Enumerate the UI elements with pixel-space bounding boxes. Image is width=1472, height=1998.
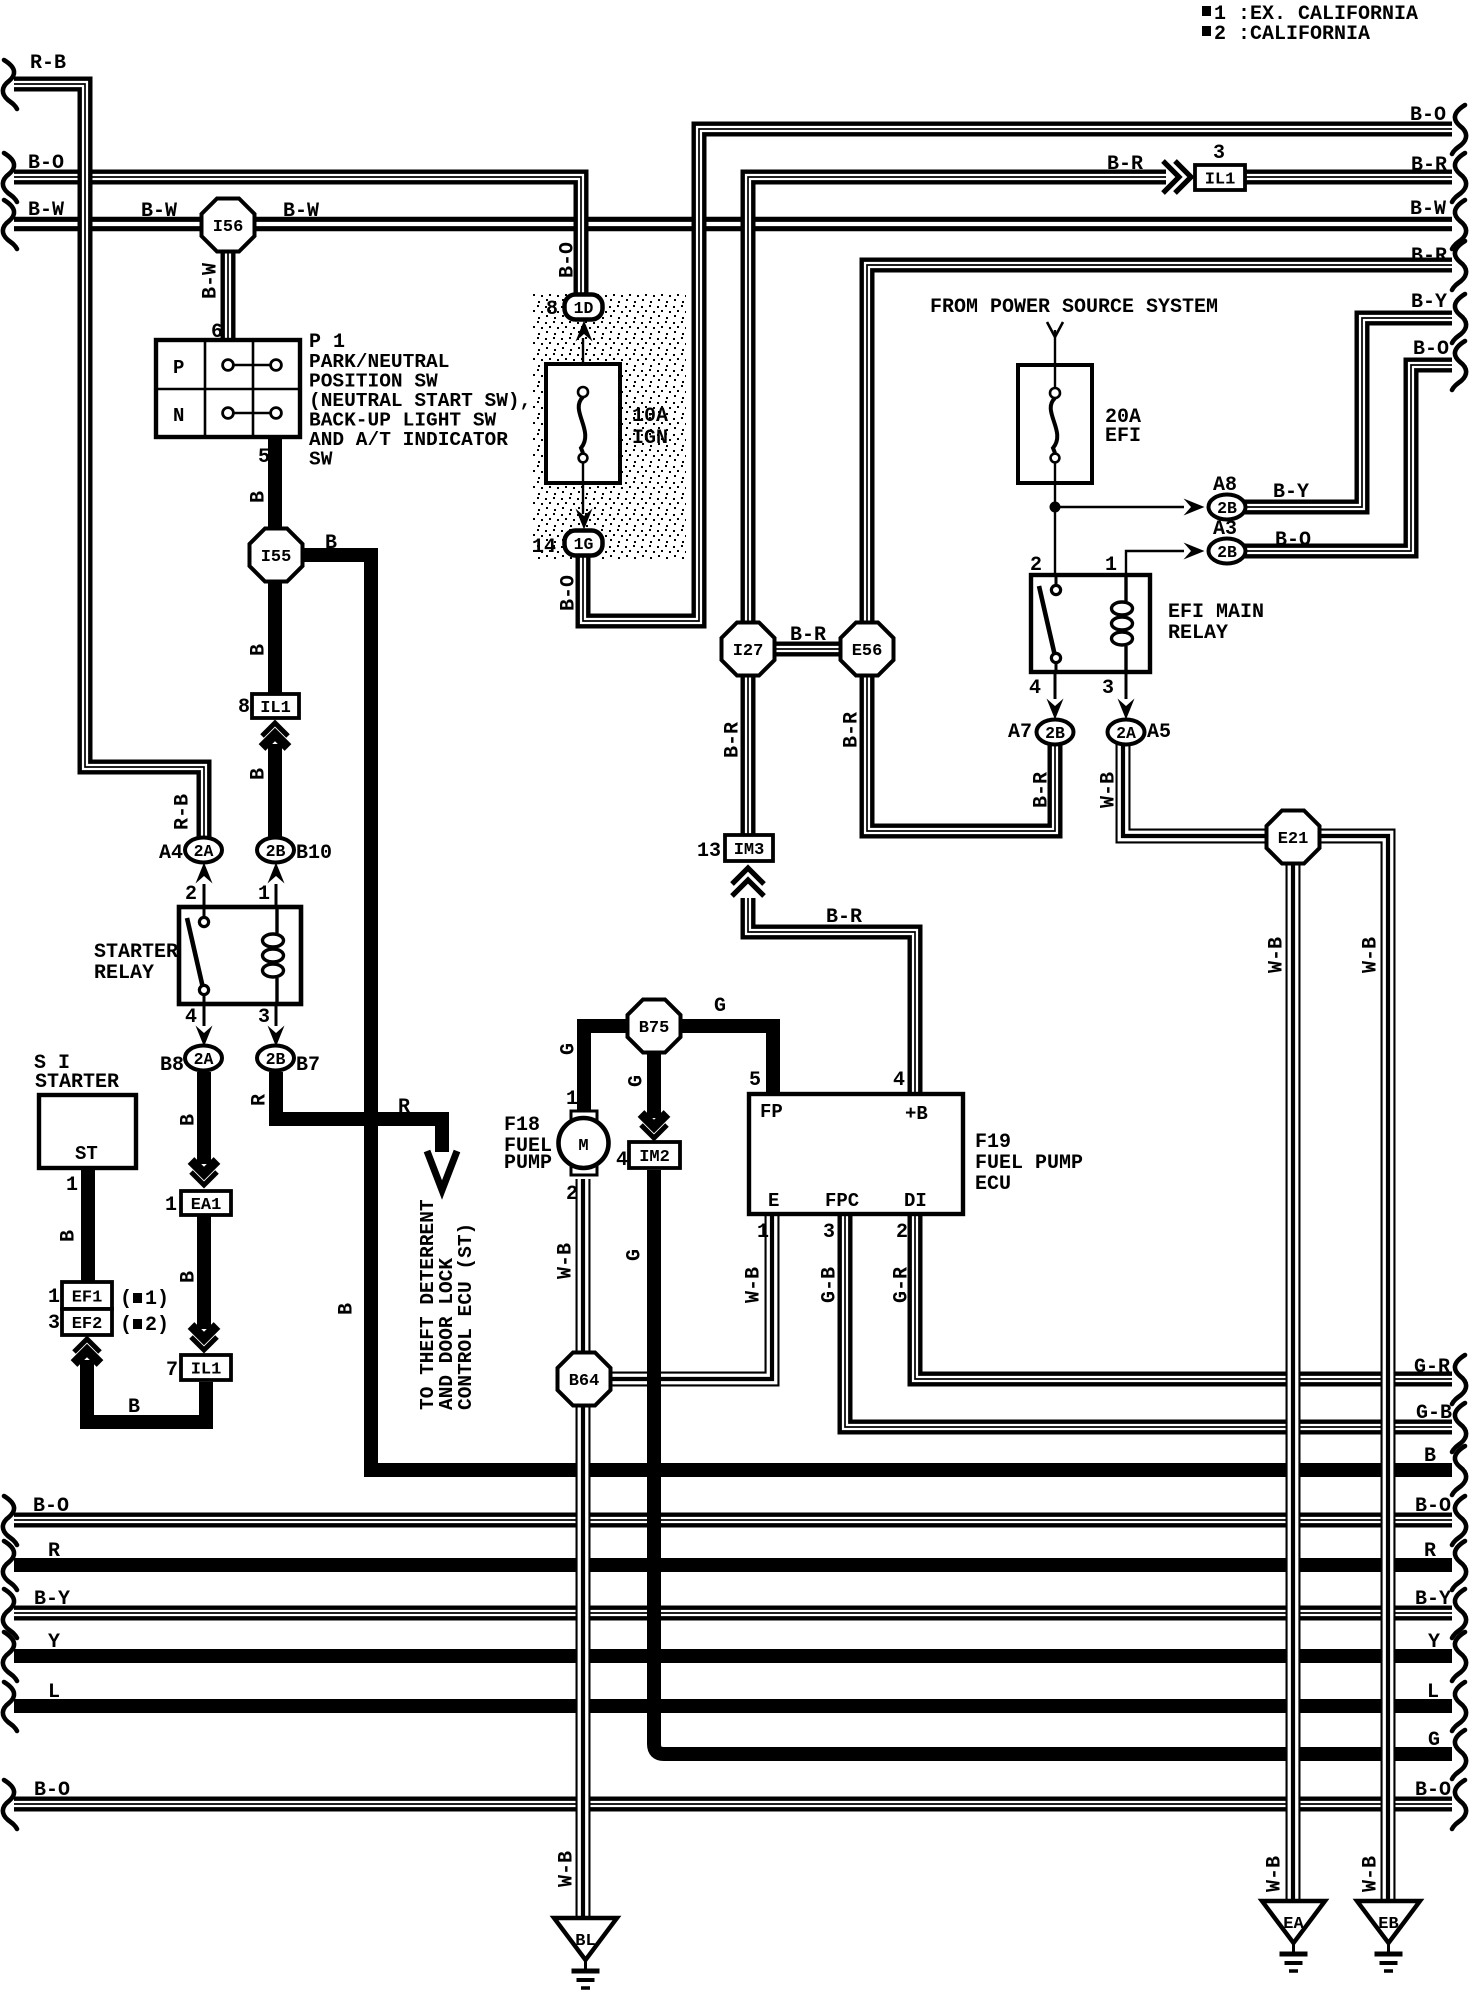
label note EX california <box>1202 6 1211 16</box>
svg-text:B-O: B-O <box>34 1779 70 1802</box>
svg-text:A5: A5 <box>1147 721 1171 744</box>
svg-text:BL: BL <box>575 1932 595 1951</box>
svg-text:2B: 2B <box>1217 543 1237 562</box>
ground BL <box>554 1918 617 1988</box>
svg-text:B64: B64 <box>569 1372 600 1391</box>
svg-text:B-O: B-O <box>1410 104 1446 127</box>
wire B-W bus y224 <box>14 217 1452 232</box>
svg-text:1: 1 <box>757 1221 769 1244</box>
svg-text:(: ( <box>120 1314 132 1337</box>
svg-text:ST: ST <box>75 1143 98 1165</box>
fuse 20A EFI <box>1018 365 1092 483</box>
svg-text:5: 5 <box>258 446 270 469</box>
continuation brace B-O3 right <box>1452 1496 1466 1545</box>
continuation brace G right <box>1452 1730 1466 1779</box>
wire B-O bus y1804 <box>14 1797 1452 1812</box>
svg-text:R-B: R-B <box>172 794 195 830</box>
svg-text:2B: 2B <box>1217 499 1237 518</box>
continuation brace B-Y2 right <box>1452 1589 1466 1638</box>
svg-text:EFI MAIN: EFI MAIN <box>1168 601 1264 624</box>
svg-text:2B: 2B <box>1045 724 1065 743</box>
arrow B-R into IL1 3 <box>1163 161 1191 193</box>
svg-text:FROM POWER SOURCE SYSTEM: FROM POWER SOURCE SYSTEM <box>930 296 1218 319</box>
wire 20A fuse to junction and EFI relay pin 2 <box>1054 462 1056 577</box>
svg-text:R: R <box>48 1540 60 1563</box>
svg-text:B: B <box>1424 1445 1436 1468</box>
svg-text:B-R: B-R <box>841 712 864 748</box>
svg-text:B-O: B-O <box>558 575 581 611</box>
wire B I55 to IL1 8 <box>268 578 282 697</box>
ground EB <box>1357 1901 1420 1971</box>
arrow into IL1 7 <box>191 1326 217 1351</box>
svg-text:4: 4 <box>616 1149 628 1172</box>
svg-text:B7: B7 <box>296 1054 320 1077</box>
connector IL1 pin7 <box>181 1355 231 1380</box>
svg-text:B-R: B-R <box>1411 154 1447 177</box>
connector IM3 <box>725 835 773 861</box>
component S1 starter <box>39 1095 136 1168</box>
continuation brace B-Y left <box>3 1589 17 1638</box>
arrow into 2B B7 <box>268 1026 285 1047</box>
wire B-O bus y1520 <box>14 1513 1452 1528</box>
continuation brace B-W right <box>1452 200 1466 249</box>
svg-text:B-W: B-W <box>28 199 64 222</box>
svg-text:R: R <box>398 1096 410 1119</box>
svg-text:B: B <box>178 1114 201 1126</box>
svg-text:B-O: B-O <box>33 1495 69 1518</box>
svg-text:B-R: B-R <box>722 722 745 758</box>
svg-text:RELAY: RELAY <box>1168 622 1228 645</box>
svg-text:B: B <box>325 532 337 555</box>
ground EA <box>1262 1901 1325 1971</box>
svg-text:B-O: B-O <box>28 152 64 175</box>
wire B P1 pin5 to I55 <box>268 437 282 532</box>
svg-text:IL1: IL1 <box>191 1361 222 1380</box>
svg-text:W-B: W-B <box>743 1267 766 1303</box>
svg-text:EF1: EF1 <box>72 1289 103 1308</box>
continuation brace R right <box>1452 1541 1466 1590</box>
svg-text:5: 5 <box>749 1069 761 1092</box>
fuse 10A IGN <box>546 364 620 483</box>
component F19 fuel pump ECU <box>749 1094 963 1214</box>
svg-text:EA1: EA1 <box>191 1196 222 1215</box>
wire B-O left to connector 1D <box>14 177 581 299</box>
svg-text:F18: F18 <box>504 1114 540 1137</box>
svg-text:W-B: W-B <box>1098 772 1121 808</box>
svg-text:F19: F19 <box>975 1131 1011 1154</box>
wire B-O A3 to right edge <box>1244 365 1452 551</box>
svg-text:RELAY: RELAY <box>94 962 154 985</box>
svg-text:B-R: B-R <box>1031 772 1054 808</box>
wire W-B E21 to EA ground <box>1286 859 1301 1901</box>
svg-text:B: B <box>248 768 271 780</box>
svg-text:B-Y: B-Y <box>1411 291 1447 314</box>
svg-text:E: E <box>768 1190 779 1212</box>
svg-text:B-W: B-W <box>200 263 223 299</box>
svg-text:IM2: IM2 <box>639 1148 670 1167</box>
connector IM2 <box>629 1142 680 1168</box>
continuation brace G-B right <box>1452 1403 1466 1452</box>
svg-text:B8: B8 <box>160 1054 184 1077</box>
svg-text:G-B: G-B <box>819 1267 842 1303</box>
continuation brace B-W left <box>3 200 17 249</box>
arrow into A4 2A <box>196 863 213 884</box>
svg-text:B-R: B-R <box>790 624 826 647</box>
svg-text:DI: DI <box>904 1190 927 1212</box>
svg-text:E21: E21 <box>1278 830 1309 849</box>
svg-text:B-Y: B-Y <box>1415 1588 1451 1611</box>
svg-text:B-O: B-O <box>557 242 580 278</box>
connector 2A A5 <box>1108 720 1145 745</box>
wire B IL1 to 2B B10 <box>268 744 282 841</box>
svg-text:FPC: FPC <box>825 1190 859 1212</box>
svg-text:W-B: W-B <box>1360 1856 1383 1892</box>
arrow into IL1 8 <box>262 723 288 748</box>
svg-text:G-B: G-B <box>1416 1402 1452 1425</box>
svg-text:FUEL PUMP: FUEL PUMP <box>975 1152 1083 1175</box>
svg-text:A4: A4 <box>159 842 183 865</box>
connector IL1 pin8 <box>252 694 299 718</box>
wire B B8 2A to EA1 <box>197 1072 211 1164</box>
continuation brace Y left <box>3 1632 17 1681</box>
svg-text:1G: 1G <box>574 535 594 554</box>
svg-text:2): 2) <box>145 1314 169 1337</box>
svg-text:1): 1) <box>145 1288 169 1311</box>
continuation brace G-R right <box>1452 1355 1466 1404</box>
continuation brace B-O4 right <box>1452 1780 1466 1829</box>
svg-text:I56: I56 <box>213 218 244 237</box>
wire B-R IM3 to ECU +B <box>748 898 915 1096</box>
arrow into B8 2A <box>196 1026 213 1047</box>
svg-text:L: L <box>48 1681 60 1704</box>
svg-text:L: L <box>1427 1681 1439 1704</box>
svg-text:STARTER: STARTER <box>94 941 178 964</box>
svg-text:ECU: ECU <box>975 1173 1011 1196</box>
wire L bus y1706 <box>14 1699 1452 1713</box>
arrow from power source system <box>1047 322 1063 337</box>
arrow into A8 2B <box>1184 499 1205 516</box>
svg-text:B-O: B-O <box>1275 529 1311 552</box>
svg-text:2: 2 <box>896 1221 908 1244</box>
svg-text:AND A/T INDICATOR: AND A/T INDICATOR <box>309 429 508 451</box>
svg-text:3: 3 <box>823 1221 835 1244</box>
svg-text:R-B: R-B <box>30 52 66 75</box>
connector A7 2B <box>1037 720 1074 745</box>
svg-text:B-W: B-W <box>283 200 319 223</box>
continuation brace B-R2 right <box>1452 241 1466 290</box>
svg-text:CONTROL ECU (ST): CONTROL ECU (ST) <box>455 1223 477 1410</box>
svg-text:G: G <box>626 1075 649 1087</box>
svg-text:IL1: IL1 <box>260 699 291 718</box>
wire B-O from 1G to right edge <box>583 129 1452 621</box>
svg-text:B: B <box>336 1303 359 1315</box>
arrow into 2A A5 <box>1118 699 1135 720</box>
svg-text:A7: A7 <box>1008 721 1032 744</box>
svg-text:4: 4 <box>893 1069 905 1092</box>
svg-text:Y: Y <box>1428 1631 1440 1654</box>
svg-text:1D: 1D <box>574 299 594 318</box>
junction B64 <box>558 1353 611 1406</box>
continuation brace B-O left bus2 <box>3 1780 17 1829</box>
arrow into 1G <box>576 509 593 530</box>
connector 1G <box>565 531 603 556</box>
wire G IM2 to G bus <box>654 1170 1452 1754</box>
svg-text:13: 13 <box>697 840 721 863</box>
component F18 fuel pump motor <box>559 1111 609 1175</box>
svg-text:2A: 2A <box>194 1050 214 1069</box>
svg-text:B-W: B-W <box>1410 198 1446 221</box>
wire EFI relay pin 1 to A3 2B arrow <box>1126 551 1184 577</box>
connector A4 2A <box>185 838 222 863</box>
connector EA1 <box>181 1191 231 1215</box>
wire B EA1 to IL1 7 <box>197 1215 211 1329</box>
svg-text:W-B: W-B <box>1360 937 1383 973</box>
wire B-R from E56 to right edge <box>867 265 1452 627</box>
svg-text:IM3: IM3 <box>734 841 765 860</box>
svg-text:1: 1 <box>48 1286 60 1309</box>
svg-text:R: R <box>249 1094 272 1106</box>
junction E21 <box>1267 811 1320 864</box>
svg-text:2: 2 <box>1030 554 1042 577</box>
wire W-B E21 branch to EB ground <box>1316 836 1388 1901</box>
svg-text:1: 1 <box>66 1174 78 1197</box>
continuation brace B-R right <box>1452 153 1466 202</box>
wire G-B ECU FPC to right edge <box>845 1212 1452 1427</box>
svg-text:B10: B10 <box>296 842 332 865</box>
svg-text:G-R: G-R <box>1414 1356 1450 1379</box>
svg-text:G: G <box>558 1043 581 1055</box>
svg-text:W-B: W-B <box>1266 937 1289 973</box>
wire B EF2 loop to IL1 7 <box>87 1360 206 1422</box>
wire EFI relay pin stubs <box>1054 670 1057 699</box>
wire B-R E56 to A7 2B <box>867 671 1055 831</box>
svg-text:+B: +B <box>905 1103 928 1125</box>
svg-text:N: N <box>173 405 184 427</box>
wire B-R IL1 to right edge <box>1245 170 1452 185</box>
wire B-W I56 to P1 pin6 <box>221 252 236 344</box>
node junction dot <box>1050 502 1061 513</box>
arrow into 1D <box>576 321 593 342</box>
svg-text:G: G <box>714 995 726 1018</box>
wire B-Y A8 to right edge <box>1244 318 1452 507</box>
svg-text:3: 3 <box>1213 142 1225 165</box>
svg-text:M: M <box>578 1137 588 1156</box>
arrow into EF2 <box>74 1339 100 1364</box>
arrow R wire to theft deterrent ECU <box>427 1151 457 1190</box>
wire from power source into 20A fuse <box>1054 330 1056 388</box>
svg-text:B-O: B-O <box>1415 1495 1451 1518</box>
svg-text:8: 8 <box>238 696 250 719</box>
svg-text:B-O: B-O <box>1413 338 1449 361</box>
svg-text:B-R: B-R <box>826 906 862 929</box>
junction B75 <box>628 1000 681 1053</box>
svg-text:PUMP: PUMP <box>504 1152 552 1175</box>
svg-text:I55: I55 <box>261 548 292 567</box>
connector 2B B10 <box>257 838 294 863</box>
svg-text:1: 1 <box>258 883 270 906</box>
wire G B75 to fuel pump <box>584 1026 628 1114</box>
arrow into 2B B10 <box>268 863 285 884</box>
relay starter relay <box>179 907 301 1004</box>
wire R bus y1565 <box>14 1558 1452 1572</box>
svg-text:B-O: B-O <box>1415 1779 1451 1802</box>
svg-text:STARTER: STARTER <box>35 1071 119 1094</box>
wire W-B fuel pump to B64 <box>576 1179 591 1355</box>
svg-text:B-R: B-R <box>1411 245 1447 268</box>
svg-text:EA: EA <box>1283 1915 1304 1934</box>
svg-text:IL1: IL1 <box>1205 171 1236 190</box>
svg-text:G: G <box>624 1249 647 1261</box>
wire B I55 branch to B bus <box>299 555 1452 1470</box>
arrow into A3 2B <box>1184 543 1205 560</box>
junction I55 <box>250 529 303 582</box>
connector EF2 <box>62 1309 112 1335</box>
continuation brace B-O left bus <box>3 1496 17 1545</box>
continuation brace B-Y right <box>1452 294 1466 343</box>
wire G B75 to IM2 <box>647 1050 661 1118</box>
svg-text:W-B: W-B <box>1264 1856 1287 1892</box>
svg-text:W-B: W-B <box>556 1851 579 1887</box>
wire R 2B B7 to ST arrow <box>276 1072 442 1152</box>
svg-text:6: 6 <box>211 321 223 344</box>
wire G-R ECU DI to right edge <box>915 1212 1452 1379</box>
continuation brace L right <box>1452 1682 1466 1731</box>
wire W-B B64 to BL ground <box>576 1403 591 1920</box>
svg-text:FP: FP <box>760 1101 783 1123</box>
wire starter relay pin stubs <box>203 884 206 909</box>
svg-text:B75: B75 <box>639 1019 670 1038</box>
connector 2B B7 <box>257 1046 294 1071</box>
svg-text:Y: Y <box>48 1631 60 1654</box>
svg-text:R: R <box>1424 1540 1436 1563</box>
wire B ST to EF1 <box>81 1168 95 1284</box>
junction I56 <box>202 199 255 252</box>
svg-text:B-Y: B-Y <box>1273 481 1309 504</box>
svg-text:2 :CALIFORNIA: 2 :CALIFORNIA <box>1214 23 1370 46</box>
svg-text:7: 7 <box>166 1359 178 1382</box>
svg-text:(: ( <box>120 1288 132 1311</box>
wire Y bus y1656 <box>14 1649 1452 1663</box>
relay EFI main relay <box>1031 575 1150 672</box>
svg-text:2: 2 <box>566 1183 578 1206</box>
svg-text:2: 2 <box>185 883 197 906</box>
wire G B75 to ECU FP <box>680 1026 773 1096</box>
continuation brace R left <box>3 1541 17 1590</box>
connector 1D <box>565 295 603 320</box>
svg-text:IGN: IGN <box>632 427 668 450</box>
svg-text:B: B <box>248 491 271 503</box>
connector A8 2B <box>1209 495 1246 520</box>
svg-text:B-R: B-R <box>1107 153 1143 176</box>
wire B-R link I27-E56 <box>770 642 844 657</box>
svg-text:SW: SW <box>309 449 333 471</box>
wire R-B to A4 2A <box>14 84 204 841</box>
svg-text:3: 3 <box>1102 677 1114 700</box>
svg-text:10A: 10A <box>632 405 668 428</box>
svg-text:14: 14 <box>532 536 556 559</box>
svg-text:A3: A3 <box>1213 518 1237 541</box>
junction I27 <box>722 623 775 676</box>
continuation brace L left <box>3 1682 17 1731</box>
svg-text:E56: E56 <box>852 642 883 661</box>
continuation brace B-O left <box>3 153 17 202</box>
wire B-Y bus y1613 <box>14 1606 1452 1621</box>
junction E56 <box>841 623 894 676</box>
continuation brace B right <box>1452 1446 1466 1495</box>
svg-text:W-B: W-B <box>555 1243 578 1279</box>
wire W-B ECU E to B64 <box>612 1212 772 1379</box>
svg-text:B: B <box>128 1396 140 1419</box>
svg-text:B-W: B-W <box>141 200 177 223</box>
wire B-R from I27 to IL1 arrow <box>748 177 1166 627</box>
svg-text:1: 1 <box>1105 554 1117 577</box>
continuation brace B-O2 right <box>1452 341 1466 390</box>
svg-text:1: 1 <box>165 1194 177 1217</box>
svg-text:3: 3 <box>48 1312 60 1335</box>
svg-text:1: 1 <box>566 1088 578 1111</box>
svg-text:G-R: G-R <box>891 1267 914 1303</box>
wire junction to A8 2B arrow <box>1055 506 1184 508</box>
svg-text:B-Y: B-Y <box>34 1588 70 1611</box>
wire B-R I27 to IM3 <box>741 671 756 838</box>
svg-text:8: 8 <box>546 298 558 321</box>
svg-text:B: B <box>248 644 271 656</box>
svg-text:4: 4 <box>1029 677 1041 700</box>
continuation brace R-B left <box>3 60 17 109</box>
svg-text:3: 3 <box>258 1006 270 1029</box>
svg-text:EB: EB <box>1378 1915 1398 1934</box>
wire fuse 10A feed lines <box>582 338 584 372</box>
svg-text:4: 4 <box>185 1006 197 1029</box>
svg-text:2A: 2A <box>194 842 214 861</box>
svg-text:2B: 2B <box>266 842 286 861</box>
svg-text:EF2: EF2 <box>72 1315 103 1334</box>
svg-text:2A: 2A <box>1116 724 1136 743</box>
switch P1 park/neutral position switch <box>156 340 300 437</box>
continuation brace B-O right <box>1452 105 1466 154</box>
arrow into EA1 <box>191 1161 217 1186</box>
arrow into IM2 <box>641 1114 667 1139</box>
stipple highlight region around 10A IGN fuse <box>533 293 686 559</box>
svg-text:G: G <box>1428 1729 1440 1752</box>
connector B8 2A <box>185 1046 222 1071</box>
arrow into A7 2B <box>1047 699 1064 720</box>
svg-text:B: B <box>178 1271 201 1283</box>
svg-text:A8: A8 <box>1213 474 1237 497</box>
arrow into IM3 <box>732 868 764 896</box>
connector A3 2B <box>1209 539 1246 564</box>
connector IL1 pin3 <box>1195 165 1245 190</box>
svg-text:2B: 2B <box>266 1050 286 1069</box>
wire W-B A5 to E21 <box>1123 742 1270 836</box>
svg-text:P: P <box>173 357 184 379</box>
svg-text:I27: I27 <box>733 642 764 661</box>
connector EF1 <box>62 1282 112 1309</box>
svg-text:EFI: EFI <box>1105 425 1141 448</box>
svg-text:B: B <box>58 1230 81 1242</box>
continuation brace Y right <box>1452 1632 1466 1681</box>
